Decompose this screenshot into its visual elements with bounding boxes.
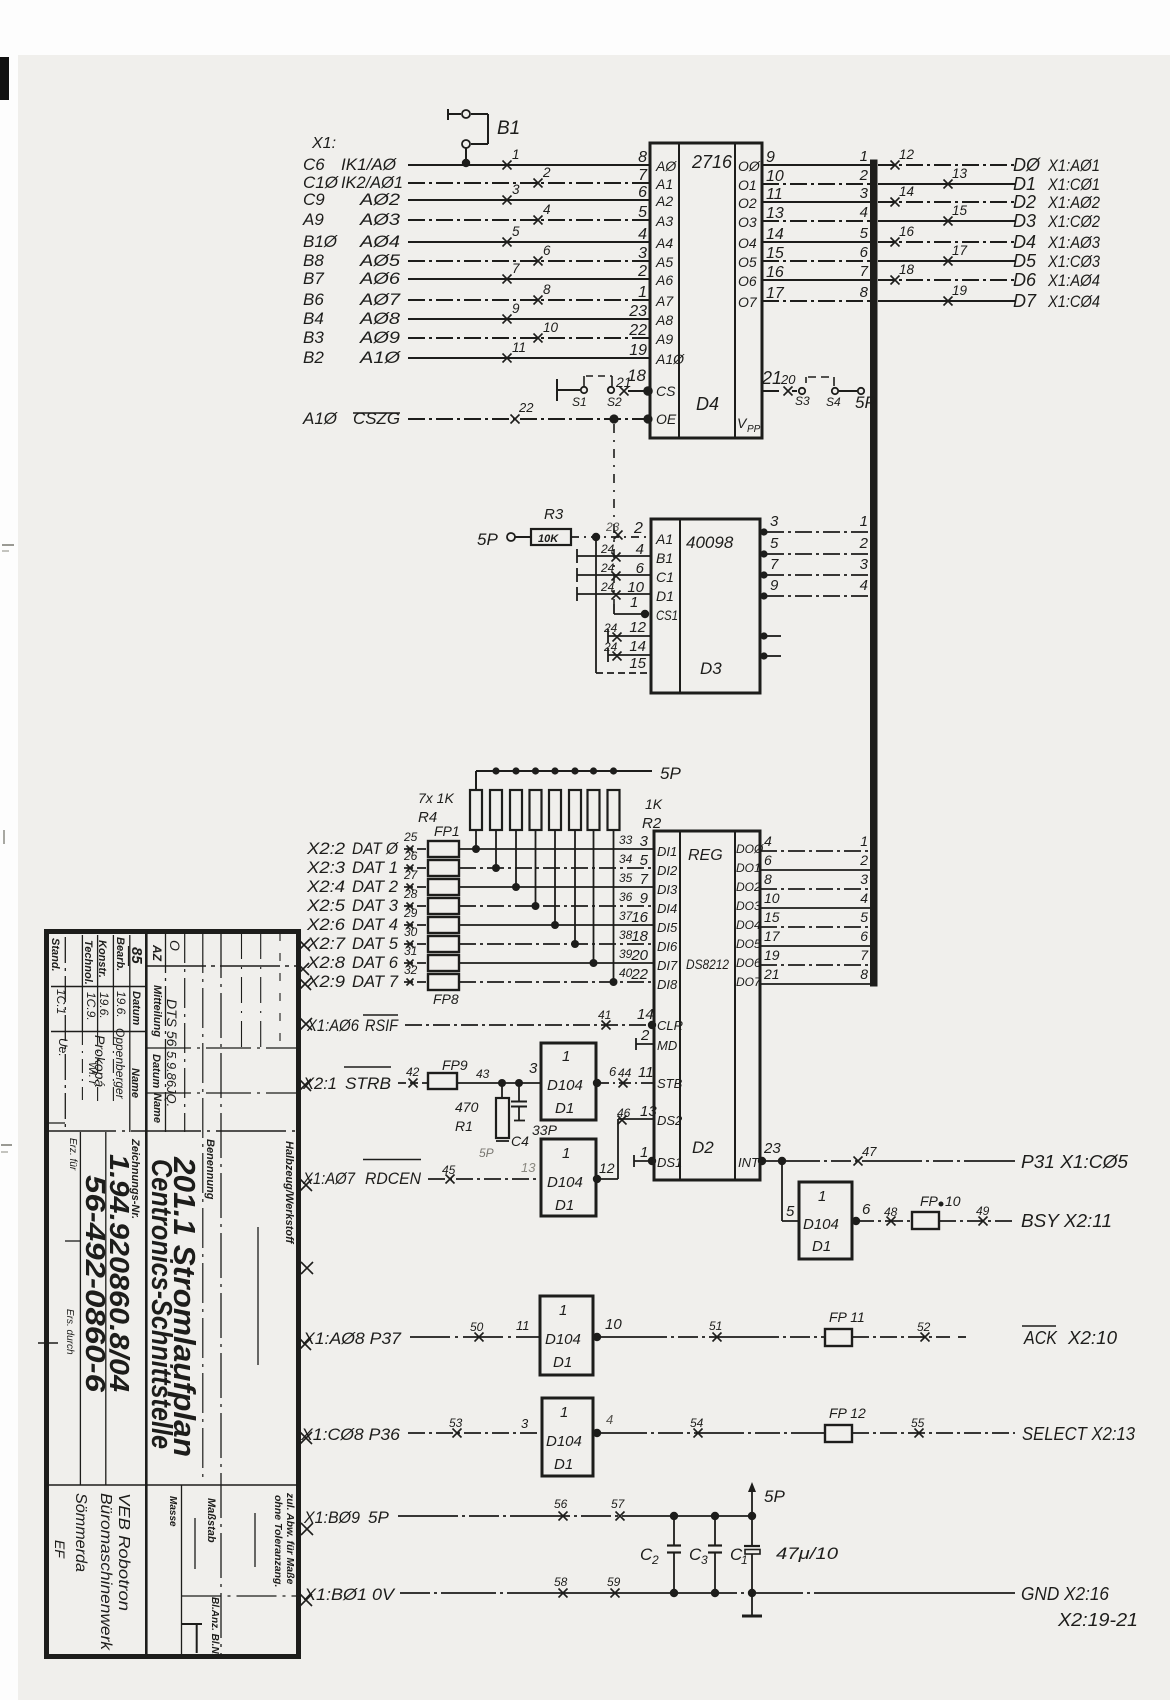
svg-text:13: 13 <box>766 205 784 222</box>
svg-text:R1: R1 <box>455 1118 473 1134</box>
svg-text:5P: 5P <box>479 1146 494 1160</box>
title block handwritten entries <box>54 940 183 1107</box>
resistor R3 10K <box>531 506 571 545</box>
wire stub to D3 pin 6 <box>577 560 650 582</box>
gate D1 (D104) SELECT driver <box>542 1398 593 1476</box>
wire RSIF to D2 CLR pin 14 <box>306 1006 656 1035</box>
svg-text:22: 22 <box>630 966 648 983</box>
svg-text:22: 22 <box>628 322 647 339</box>
title block header texts <box>49 937 296 1660</box>
wire X1:A07 RDCEN input <box>302 1160 541 1189</box>
svg-text:DI1: DI1 <box>657 844 677 859</box>
buffer U D3 40098 body <box>651 519 760 693</box>
svg-text:24: 24 <box>600 542 615 556</box>
svg-text:Ue.: Ue. <box>56 1038 70 1057</box>
svg-text:DAT 5: DAT 5 <box>352 934 399 953</box>
svg-text:DO7: DO7 <box>736 975 762 989</box>
svg-text:O1: O1 <box>738 177 757 193</box>
wire X2:6 DAT 4 through FP5 to D2 pin 16 <box>306 906 653 934</box>
svg-text:D1: D1 <box>656 588 674 604</box>
svg-text:AØ7: AØ7 <box>359 290 401 309</box>
svg-text:D1: D1 <box>555 1197 574 1214</box>
svg-text:11: 11 <box>516 1318 530 1333</box>
svg-text:EF: EF <box>52 1540 68 1559</box>
svg-text:X1:CØ8 P36: X1:CØ8 P36 <box>300 1425 401 1444</box>
svg-text:B1: B1 <box>656 550 673 566</box>
svg-text:Maßstab: Maßstab <box>205 1498 217 1543</box>
svg-text:5: 5 <box>640 852 649 869</box>
svg-text:D3: D3 <box>700 659 722 678</box>
svg-text:X1:: X1: <box>311 135 336 152</box>
svg-text:D104: D104 <box>803 1216 839 1233</box>
svg-text:AØ8: AØ8 <box>359 309 401 328</box>
wire INT pin 23 to P31 <box>758 1140 1129 1172</box>
svg-text:46: 46 <box>617 1106 631 1120</box>
svg-text:7: 7 <box>638 167 648 184</box>
svg-text:1: 1 <box>560 1404 568 1421</box>
svg-text:40098: 40098 <box>686 533 734 552</box>
svg-text:36: 36 <box>619 890 633 904</box>
wire X1:B09 5P supply <box>303 1497 756 1527</box>
svg-text:DAT 1: DAT 1 <box>352 858 398 877</box>
wire INT down to BSY gate input pin 5 <box>782 1161 799 1221</box>
svg-text:Bearb.: Bearb. <box>114 937 126 971</box>
wire address A6 from X1 to D4 pin 2 <box>303 261 650 288</box>
svg-text:ohne Toleranzang.: ohne Toleranzang. <box>272 1495 284 1587</box>
svg-text:59: 59 <box>607 1575 621 1589</box>
svg-text:Masse: Masse <box>167 1496 178 1527</box>
wire D3 output pin 3 to bus <box>760 513 871 536</box>
svg-text:10: 10 <box>945 1193 961 1209</box>
svg-text:15: 15 <box>952 203 968 218</box>
company VEB Robotron <box>52 1493 132 1651</box>
svg-text:DAT 2: DAT 2 <box>352 877 399 896</box>
svg-text:21: 21 <box>761 368 782 388</box>
wire address A0 from X1 to D4 pin 8 <box>303 147 650 174</box>
svg-text:33P: 33P <box>532 1122 558 1138</box>
svg-text:21: 21 <box>763 966 780 982</box>
svg-text:D5: D5 <box>1013 251 1037 271</box>
svg-text:5: 5 <box>512 224 520 239</box>
gate D1 (D104) STB driver <box>541 1043 596 1120</box>
svg-text:S3: S3 <box>795 394 810 408</box>
svg-text:Sömmerda: Sömmerda <box>72 1493 89 1572</box>
svg-text:D2: D2 <box>692 1138 714 1157</box>
svg-text:4: 4 <box>860 204 868 221</box>
svg-text:47μ/10: 47μ/10 <box>776 1544 839 1563</box>
material answer line <box>0 0 1 1</box>
wire data O0 from D4 pin 9 to bus and X1 output <box>738 147 1100 175</box>
svg-text:17: 17 <box>952 243 968 258</box>
wire address A1 from X1 to D4 pin 7 <box>303 165 650 192</box>
svg-text:24: 24 <box>600 561 615 575</box>
wire data O3 from D4 pin 13 to bus and X1 output <box>738 203 1100 231</box>
svg-text:5: 5 <box>638 204 647 221</box>
svg-text:2: 2 <box>640 1027 650 1044</box>
svg-text:D1: D1 <box>554 1456 573 1473</box>
svg-text:DI2: DI2 <box>657 863 678 878</box>
svg-text:CLR: CLR <box>657 1018 683 1033</box>
svg-text:17: 17 <box>764 928 781 944</box>
svg-text:6: 6 <box>764 852 772 868</box>
wire D2 output DO7 pin 21 to bus <box>760 966 871 984</box>
svg-text:19: 19 <box>764 947 780 963</box>
capacitor C4 33P <box>511 1083 558 1149</box>
jumper B1 <box>448 109 520 167</box>
svg-text:Stand.: Stand. <box>49 938 61 972</box>
svg-text:1K: 1K <box>645 796 663 812</box>
svg-text:13: 13 <box>521 1160 536 1175</box>
wire data O5 from D4 pin 15 to bus and X1 output <box>738 243 1100 271</box>
svg-text:DAT 3: DAT 3 <box>352 896 399 915</box>
wire stub to D3 pin 12 <box>603 619 650 643</box>
Bl.Nr. handwritten 1 <box>181 1624 202 1653</box>
svg-text:Datum: Datum <box>150 1054 162 1088</box>
svg-text:7: 7 <box>860 263 869 280</box>
svg-text:DOØ: DOØ <box>736 842 764 856</box>
resistor R1 470 <box>455 1083 509 1160</box>
wire D2 output DO2 pin 8 to bus <box>760 871 871 889</box>
svg-text:30: 30 <box>404 925 418 939</box>
svg-text:P31 X1:CØ5: P31 X1:CØ5 <box>1021 1152 1129 1172</box>
wire stub to D3 pin 14 <box>603 638 650 662</box>
svg-text:58: 58 <box>554 1575 568 1589</box>
svg-text:D104: D104 <box>547 1174 583 1191</box>
svg-text:3: 3 <box>638 245 647 262</box>
svg-text:A1: A1 <box>655 531 673 547</box>
svg-text:14: 14 <box>637 1006 654 1023</box>
wire X2:8 DAT 6 through FP7 to D2 pin 20 <box>306 944 653 972</box>
svg-text:D7: D7 <box>1013 291 1037 311</box>
wire D2 output DO3 pin 10 to bus <box>760 890 871 908</box>
svg-text:C6: C6 <box>303 155 325 174</box>
svg-text:11: 11 <box>638 1064 654 1081</box>
svg-text:A1Ø: A1Ø <box>302 409 339 428</box>
svg-text:Ers. durch: Ers. durch <box>64 1309 75 1355</box>
svg-text:33: 33 <box>619 833 633 847</box>
svg-text:3: 3 <box>529 1060 538 1077</box>
svg-text:5: 5 <box>786 1203 795 1220</box>
svg-text:19.6.: 19.6. <box>114 991 128 1018</box>
svg-text:Erz. für: Erz. für <box>67 1138 78 1171</box>
svg-text:41: 41 <box>598 1008 611 1022</box>
svg-text:JQ.: JQ. <box>164 1086 179 1107</box>
svg-text:FP1: FP1 <box>434 823 460 839</box>
svg-text:9: 9 <box>766 149 775 166</box>
svg-text:12: 12 <box>599 1160 615 1176</box>
svg-text:D1: D1 <box>553 1354 572 1371</box>
ferrite bead FP8 label <box>433 991 459 1007</box>
svg-text:32: 32 <box>404 963 418 977</box>
wire gate output to D2 STB pin 11 <box>593 1064 654 1088</box>
svg-text:GND X2:16: GND X2:16 <box>1021 1584 1110 1604</box>
svg-text:13: 13 <box>640 1103 657 1120</box>
svg-text:4: 4 <box>860 577 868 594</box>
svg-text:A1: A1 <box>655 176 673 192</box>
svg-text:X1:CØ2: X1:CØ2 <box>1047 212 1100 231</box>
wire R3 junction down to D3 pin 15 <box>596 537 650 673</box>
svg-text:12: 12 <box>899 147 915 162</box>
svg-text:1: 1 <box>630 594 638 611</box>
svg-text:1: 1 <box>638 284 647 301</box>
svg-text:17: 17 <box>766 285 785 302</box>
svg-text:DI5: DI5 <box>657 920 678 935</box>
wire X2:3 DAT 1 through FP2 to D2 pin 5 <box>306 849 653 877</box>
svg-text:3: 3 <box>860 185 869 202</box>
svg-text:X2:7: X2:7 <box>306 934 346 953</box>
wire CSZG to OE <box>302 400 653 428</box>
svg-text:4: 4 <box>764 833 772 849</box>
gate D1 (D104) DS2 driver <box>541 1139 596 1216</box>
wire D2 output DO6 pin 19 to bus <box>760 947 871 965</box>
svg-text:16: 16 <box>631 909 648 926</box>
wire X1:A08 P37 to ACK through FP11 <box>302 1318 540 1348</box>
svg-text:DAT 6: DAT 6 <box>352 953 399 972</box>
svg-text:D104: D104 <box>546 1433 582 1450</box>
capacitor C3 <box>689 1516 722 1593</box>
svg-text:5P: 5P <box>477 530 498 549</box>
svg-text:Mitteilung: Mitteilung <box>151 985 163 1037</box>
svg-text:8: 8 <box>860 966 868 982</box>
svg-text:2: 2 <box>633 520 643 537</box>
svg-text:23: 23 <box>763 1140 781 1157</box>
svg-text:FP9: FP9 <box>442 1057 468 1073</box>
svg-text:4: 4 <box>860 890 868 906</box>
svg-text:27: 27 <box>403 868 419 882</box>
svg-text:DO6: DO6 <box>736 956 761 970</box>
svg-text:20: 20 <box>780 372 796 387</box>
svg-text:2: 2 <box>637 263 647 280</box>
svg-text:28: 28 <box>403 887 418 901</box>
svg-text:52: 52 <box>917 1320 931 1334</box>
svg-text:1: 1 <box>640 1144 648 1161</box>
svg-text:D6: D6 <box>1013 270 1037 290</box>
title block main name 201.1 Stromlaufplan <box>167 1156 202 1457</box>
svg-text:INT: INT <box>738 1155 760 1170</box>
svg-text:29: 29 <box>403 906 418 920</box>
wire data O2 from D4 pin 11 to bus and X1 output <box>738 184 1100 212</box>
svg-text:1: 1 <box>860 148 868 165</box>
svg-text:AZ: AZ <box>150 944 164 962</box>
svg-text:1: 1 <box>562 1048 570 1065</box>
ferrite bead FP1 label <box>434 823 460 839</box>
svg-text:DAT 7: DAT 7 <box>352 972 399 991</box>
svg-text:7: 7 <box>640 871 649 888</box>
svg-text:B6: B6 <box>303 290 324 309</box>
svg-text:35: 35 <box>619 871 633 885</box>
svg-text:A1Ø: A1Ø <box>359 348 402 367</box>
svg-text:15: 15 <box>764 909 780 925</box>
svg-text:10: 10 <box>766 168 784 185</box>
title block outer border <box>47 932 299 1657</box>
svg-text:56: 56 <box>554 1497 568 1511</box>
svg-text:54: 54 <box>690 1416 704 1430</box>
svg-text:D2: D2 <box>1013 192 1036 212</box>
svg-text:1: 1 <box>562 1145 570 1162</box>
svg-text:45: 45 <box>442 1163 456 1177</box>
svg-text:1: 1 <box>860 513 868 530</box>
svg-text:X1:AØ4: X1:AØ4 <box>1047 271 1100 290</box>
svg-text:D104: D104 <box>545 1331 581 1348</box>
svg-text:19.6.: 19.6. <box>97 992 111 1019</box>
capacitor C2 <box>640 1516 681 1593</box>
svg-text:5P: 5P <box>368 1508 389 1527</box>
svg-text:Wi. r: Wi. r <box>86 1062 98 1086</box>
svg-text:S1: S1 <box>572 395 587 409</box>
svg-text:22: 22 <box>518 400 534 415</box>
svg-text:B4: B4 <box>303 309 324 328</box>
node 5P arrow <box>748 1482 785 1516</box>
svg-text:6: 6 <box>636 560 645 577</box>
wire CSZG dashed down to D3 CS1 pin 1 <box>614 424 649 618</box>
svg-text:O3: O3 <box>738 214 757 230</box>
svg-text:14: 14 <box>766 226 784 243</box>
svg-text:A4: A4 <box>655 235 673 251</box>
svg-text:zul. Abw. für Maße: zul. Abw. für Maße <box>284 1492 296 1585</box>
svg-text:X1:CØ1: X1:CØ1 <box>1047 175 1100 194</box>
svg-text:A2: A2 <box>655 193 673 209</box>
svg-text:Büromaschinenwerk: Büromaschinenwerk <box>97 1493 114 1651</box>
wire D3 output pin 5 to bus <box>760 535 871 558</box>
stray tick on left border <box>38 1342 58 1344</box>
svg-text:DS2: DS2 <box>657 1113 683 1128</box>
svg-text:PP: PP <box>747 424 761 435</box>
svg-text:STRB: STRB <box>345 1074 391 1093</box>
wire X2:1 STRB input <box>302 1065 428 1093</box>
svg-text:24: 24 <box>600 580 615 594</box>
drawing number 56-492-0860-6 <box>80 1175 111 1392</box>
svg-text:DO2: DO2 <box>736 880 761 894</box>
svg-text:3: 3 <box>701 1553 708 1567</box>
resistor R2 1K label <box>642 796 663 832</box>
svg-text:A8: A8 <box>655 312 673 328</box>
svg-text:16: 16 <box>899 224 915 239</box>
svg-text:O: O <box>167 940 183 951</box>
svg-text:15: 15 <box>766 245 784 262</box>
svg-text:OE: OE <box>656 411 677 427</box>
svg-text:14: 14 <box>899 184 914 199</box>
svg-text:Name: Name <box>151 1093 163 1123</box>
svg-text:C9: C9 <box>303 190 325 209</box>
svg-text:1: 1 <box>860 833 868 849</box>
svg-text:34: 34 <box>619 852 633 866</box>
wire tick MD pin 2 <box>636 1027 654 1050</box>
svg-text:X1:AØ7: X1:AØ7 <box>302 1169 355 1188</box>
svg-text:42: 42 <box>406 1065 420 1079</box>
svg-text:D4: D4 <box>696 394 719 414</box>
svg-text:Oppenberger: Oppenberger <box>113 1028 127 1100</box>
svg-text:55: 55 <box>911 1416 925 1430</box>
svg-text:X2:10: X2:10 <box>1067 1328 1117 1348</box>
svg-text:X2:19-21: X2:19-21 <box>1057 1610 1138 1630</box>
svg-text:X2:4: X2:4 <box>306 877 345 896</box>
svg-text:AØ5: AØ5 <box>359 251 401 270</box>
switch S1 S2 on CS line <box>557 366 653 409</box>
title block grid lines <box>46 931 298 1656</box>
svg-text:DO5: DO5 <box>736 937 761 951</box>
svg-text:RSIF: RSIF <box>365 1016 399 1035</box>
svg-text:43: 43 <box>476 1067 490 1081</box>
wire address A3 from X1 to D4 pin 5 <box>302 202 650 229</box>
svg-text:DTS 56: DTS 56 <box>164 999 180 1047</box>
svg-text:D1: D1 <box>812 1238 831 1255</box>
svg-text:X1:AØ3: X1:AØ3 <box>1047 233 1100 252</box>
svg-text:20: 20 <box>630 947 648 964</box>
svg-text:B1: B1 <box>497 118 520 139</box>
svg-text:O5: O5 <box>738 254 757 270</box>
svg-text:2: 2 <box>859 167 869 184</box>
svg-text:6: 6 <box>638 184 647 201</box>
svg-text:15: 15 <box>629 655 646 672</box>
svg-text:1C.1: 1C.1 <box>54 989 68 1014</box>
svg-text:Name: Name <box>129 1068 141 1098</box>
wire X2:4 DAT 2 through FP3 to D2 pin 7 <box>306 868 653 896</box>
svg-text:B2: B2 <box>303 348 324 367</box>
wire D2 output DO0 pin 4 to bus <box>760 833 871 851</box>
svg-text:ACK: ACK <box>1023 1328 1058 1348</box>
svg-text:24: 24 <box>603 621 618 635</box>
svg-text:1C.9.: 1C.9. <box>84 992 98 1021</box>
svg-text:2716: 2716 <box>691 152 733 172</box>
svg-text:CSZG: CSZG <box>353 409 400 428</box>
svg-text:DS8212: DS8212 <box>686 956 729 972</box>
svg-text:D104: D104 <box>547 1077 583 1094</box>
svg-text:3: 3 <box>770 513 779 530</box>
svg-text:470: 470 <box>455 1099 479 1115</box>
svg-text:6: 6 <box>860 928 868 944</box>
svg-text:13: 13 <box>952 166 968 181</box>
svg-text:4: 4 <box>543 202 551 217</box>
resistor network R4 7x1K <box>418 767 620 986</box>
svg-text:C1: C1 <box>656 569 674 585</box>
svg-text:Centronics-Schnittstelle: Centronics-Schnittstelle <box>145 1159 177 1449</box>
svg-text:1: 1 <box>559 1302 567 1319</box>
svg-text:31: 31 <box>404 944 417 958</box>
wire D2 output DO5 pin 17 to bus <box>760 928 871 946</box>
wire data O7 from D4 pin 17 to bus and X1 output <box>738 283 1100 311</box>
svg-text:X2:8: X2:8 <box>306 953 346 972</box>
svg-text:Konstr.: Konstr. <box>96 940 108 978</box>
svg-text:7: 7 <box>512 261 520 276</box>
svg-text:18: 18 <box>631 928 648 945</box>
title block name Centronics-Schnittstelle <box>145 1159 177 1449</box>
node 5P rail над resistor network <box>476 764 681 790</box>
svg-text:X2:2: X2:2 <box>306 839 346 858</box>
svg-text:5: 5 <box>860 225 869 242</box>
svg-text:DI8: DI8 <box>657 977 678 992</box>
svg-text:8: 8 <box>764 871 772 887</box>
svg-text:B8: B8 <box>303 251 324 270</box>
svg-text:4: 4 <box>636 541 644 558</box>
svg-text:C4: C4 <box>511 1133 529 1149</box>
svg-text:4: 4 <box>606 1412 613 1427</box>
svg-text:DO1: DO1 <box>736 861 761 875</box>
svg-text:5: 5 <box>860 909 868 925</box>
svg-text:A3: A3 <box>655 213 673 229</box>
svg-text:50: 50 <box>470 1320 484 1334</box>
svg-text:10: 10 <box>764 890 780 906</box>
wire R3 to D3 pin 2 <box>571 520 650 541</box>
svg-text:1: 1 <box>512 147 520 162</box>
svg-text:DI6: DI6 <box>657 939 678 954</box>
svg-text:10K: 10K <box>538 533 559 545</box>
svg-text:A7: A7 <box>655 293 674 309</box>
svg-text:1: 1 <box>818 1188 826 1205</box>
svg-text:DI3: DI3 <box>657 882 678 897</box>
svg-text:DO4: DO4 <box>736 918 761 932</box>
svg-text:6: 6 <box>543 243 551 258</box>
wire stub to D3 pin 10 <box>577 579 650 601</box>
